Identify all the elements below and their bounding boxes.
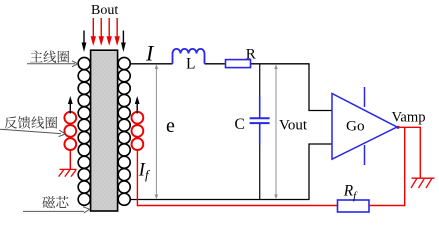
svg-text:e: e [166, 115, 175, 137]
svg-text:If: If [138, 161, 151, 182]
wire: Vamp to right ground (red) [398, 127, 420, 178]
svg-text:I: I [145, 40, 155, 65]
wire: main coil bottom lead to opamp input (bottom) [130, 144, 332, 200]
resistor Rf [338, 200, 370, 212]
label 磁芯 (core) with leader arrow [23, 196, 90, 213]
label 反馈线圈 (feedback coil) with leader arrow [0, 116, 65, 136]
magnetic core [91, 50, 118, 211]
wire: feedback coil left to ground (red) [69, 151, 71, 170]
resistor R [226, 60, 251, 68]
feedback coil right winding [132, 112, 144, 150]
wire: feedback coil right down and along bottom to Rf (red) [137, 151, 337, 206]
ground (left, red) [59, 169, 77, 176]
label 主线圈 (main coil) with leader arrow [27, 50, 78, 66]
svg-text:Vamp: Vamp [392, 109, 426, 125]
Bout field arrows (red, downward) [91, 18, 120, 46]
Vout measurement line [274, 64, 278, 199]
flux arrow down (left column) [82, 31, 87, 53]
feedback flux arrow up (right) [135, 96, 140, 114]
flux arrow down (right column) [121, 31, 126, 53]
main coil left winding [78, 57, 90, 205]
svg-text:R: R [246, 46, 256, 62]
voltage e measurement line [155, 64, 159, 199]
svg-text:C: C [235, 116, 245, 133]
svg-text:Go: Go [346, 118, 365, 135]
feedback coil left winding [64, 112, 76, 150]
capacitor C [250, 64, 270, 200]
ground (right, red) [411, 178, 435, 188]
op-amp U1 (Go) [332, 87, 397, 165]
feedback flux arrow up (left) [68, 96, 73, 114]
wire: Rf to Vamp (red) [369, 127, 405, 205]
svg-text:Bout: Bout [91, 3, 118, 18]
inductor L [173, 49, 205, 64]
main coil right winding [118, 57, 130, 205]
wire: main coil top lead to opamp input (top) [130, 64, 332, 111]
svg-text:Vout: Vout [279, 118, 308, 134]
svg-text:L: L [186, 55, 195, 72]
svg-text:Rf: Rf [343, 182, 358, 202]
